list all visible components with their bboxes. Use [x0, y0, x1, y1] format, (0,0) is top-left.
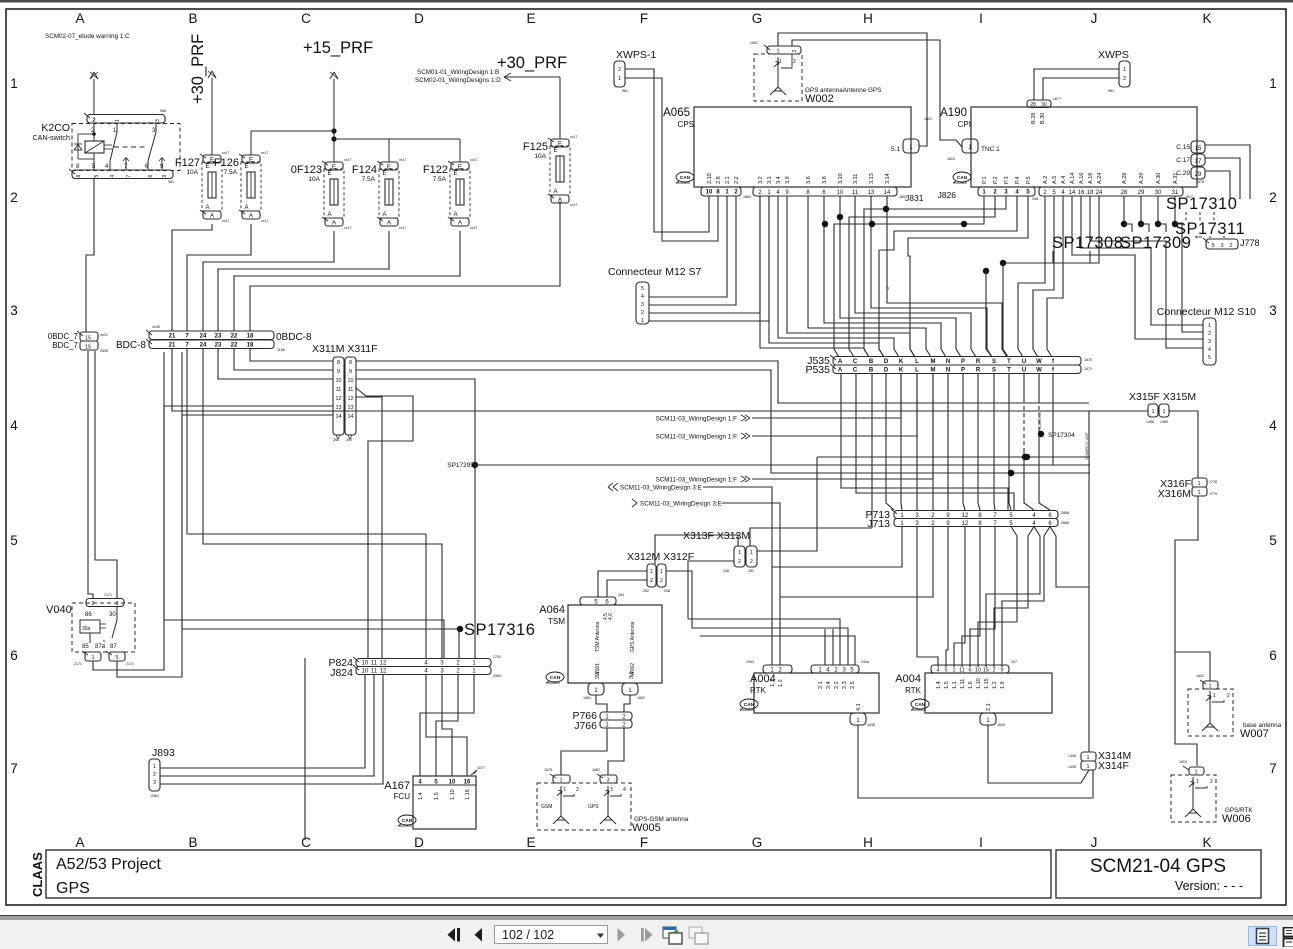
svg-text:W006: W006: [1222, 813, 1251, 825]
svg-text:RTK: RTK: [905, 686, 922, 695]
svg-text:BDC_7: BDC_7: [52, 341, 78, 350]
wire A190 pin24 to bus: [1003, 196, 1099, 263]
svg-text:SCM11-03_WiringDesign 3:E: SCM11-03_WiringDesign 3:E: [640, 501, 722, 508]
ECU A004 RTK right: [925, 673, 1052, 713]
wire A004-1 tab right: [858, 725, 1093, 798]
connector X314M X314F: [1081, 752, 1096, 761]
wires A190 28-31 to SP17311: [1123, 196, 1125, 224]
svg-text:E: E: [383, 171, 387, 177]
svg-text:W: W: [1036, 368, 1042, 374]
CAN symbol A190: [953, 172, 971, 182]
ECU A190 CPI: [971, 107, 1197, 187]
svg-text:SP17299: SP17299: [447, 462, 474, 469]
svg-text:L: L: [915, 368, 919, 374]
connector bar P713: [894, 511, 1058, 519]
svg-text:24: 24: [1096, 190, 1103, 196]
svg-text:SCM11-03_WiringDesign 1:F: SCM11-03_WiringDesign 1:F: [656, 434, 738, 441]
svg-text:264: 264: [618, 593, 624, 597]
svg-text:1: 1: [1197, 490, 1200, 496]
svg-text:N: N: [946, 359, 950, 365]
svg-text:CAN-switch: CAN-switch: [32, 133, 70, 142]
svg-text:F: F: [640, 835, 648, 850]
toolbar next page button: [616, 927, 628, 943]
svg-text:3: 3: [610, 787, 613, 793]
svg-text:X316M: X316M: [1158, 488, 1191, 500]
svg-text:248: 248: [664, 589, 670, 593]
ECU A004 RTK left: [754, 673, 879, 713]
svg-text:A: A: [245, 205, 249, 211]
svg-text:8: 8: [337, 360, 340, 366]
svg-text:1: 1: [738, 550, 741, 556]
svg-text:4: 4: [110, 175, 116, 178]
svg-text:CAN: CAN: [680, 175, 691, 181]
wires XWPS to A190 28 30: [1034, 69, 1119, 100]
svg-text:T: T: [1007, 368, 1011, 374]
svg-text:14: 14: [335, 414, 341, 420]
wire SCM11-03 1:F b: [752, 435, 917, 437]
svg-text:30a: 30a: [82, 626, 91, 632]
svg-text:H: H: [863, 11, 873, 26]
svg-text:D: D: [414, 11, 424, 26]
svg-text:xx17: xx17: [344, 158, 351, 162]
svg-text:A: A: [210, 214, 214, 220]
svg-text:10: 10: [706, 190, 713, 196]
svg-text:2: 2: [153, 772, 156, 778]
svg-text:A52/53 Project: A52/53 Project: [56, 856, 162, 873]
svg-text:M: M: [931, 359, 936, 365]
svg-text:3.1: 3.1: [767, 176, 773, 184]
svg-text:2.5: 2.5: [850, 681, 856, 689]
wire SP17299 branch: [475, 464, 1090, 466]
wire J713 pin2 to A004-1 pin2: [780, 527, 933, 598]
svg-text:0F123: 0F123: [291, 164, 322, 176]
svg-text:RTK: RTK: [750, 686, 767, 695]
svg-text:2: 2: [641, 310, 644, 316]
svg-text:3.9: 3.9: [785, 176, 791, 184]
svg-text:3.1: 3.1: [629, 671, 635, 679]
svg-text:1678: 1678: [544, 768, 552, 772]
svg-text:2: 2: [1210, 779, 1213, 785]
svg-text:2.2: 2.2: [834, 681, 840, 689]
wires X313: [655, 535, 738, 564]
svg-text:2981: 2981: [151, 794, 159, 798]
wire X311F pin12 to P824: [356, 397, 382, 659]
svg-text:2: 2: [650, 578, 653, 584]
svg-text:9: 9: [337, 369, 340, 375]
wire branch to W007: [1175, 652, 1210, 681]
svg-text:6: 6: [1269, 648, 1277, 663]
svg-text:xx17: xx17: [470, 226, 477, 230]
svg-text:29: 29: [1195, 172, 1202, 178]
svg-text:A: A: [75, 11, 84, 26]
wires C tabs to SP17310: [1205, 145, 1250, 199]
svg-text:1.15: 1.15: [984, 678, 990, 689]
svg-text:F127: F127: [175, 157, 200, 169]
junction +15 rail right: [331, 136, 336, 141]
svg-text:A: A: [838, 359, 843, 365]
svg-text:12: 12: [380, 669, 387, 675]
svg-text:23: 23: [215, 334, 222, 340]
wires A C letters to bar: [841, 373, 1008, 510]
svg-text:7: 7: [10, 761, 18, 776]
svg-text:10: 10: [975, 668, 981, 674]
svg-text:9: 9: [1000, 668, 1003, 674]
K2CO dashed box: [72, 124, 180, 171]
svg-text:10: 10: [362, 669, 369, 675]
svg-text:C: C: [301, 11, 311, 26]
svg-text:xx17: xx17: [470, 158, 477, 162]
wires J893 to P824: [160, 675, 365, 769]
K2CO junction dot: [92, 132, 96, 136]
svg-text:2: 2: [1208, 331, 1211, 337]
svg-text:11: 11: [371, 661, 378, 667]
svg-text:3: 3: [1269, 303, 1277, 318]
svg-text:FCU: FCU: [394, 792, 411, 801]
svg-text:A064: A064: [539, 604, 565, 616]
wire SCM11-03 3:E a: [703, 487, 772, 665]
V040 bottom caps: [85, 652, 101, 661]
wire F125 to BDC pin18: [250, 201, 560, 331]
wire SCM11-03 1:F a: [752, 417, 901, 419]
svg-text:2.1: 2.1: [725, 176, 731, 184]
K2CO stub pins 7 9: [125, 158, 127, 170]
fuse F126 7.5A: [242, 155, 260, 163]
svg-text:1: 1: [1196, 779, 1199, 785]
connector J831 left: [701, 187, 741, 196]
antenna W006: [1189, 767, 1204, 775]
wire W letter chain: [1038, 373, 1040, 399]
svg-text:1682: 1682: [637, 696, 645, 700]
svg-text:14: 14: [884, 190, 891, 196]
svg-text:1: 1: [1269, 76, 1277, 91]
svg-text:L: L: [915, 359, 919, 365]
svg-text:B: B: [869, 359, 874, 365]
svg-text:2688: 2688: [1061, 511, 1069, 515]
svg-text:xx17: xx17: [399, 226, 406, 230]
svg-text:1860: 1860: [743, 195, 751, 199]
svg-text:1: 1: [750, 550, 753, 556]
svg-text:961: 961: [622, 89, 628, 93]
svg-text:3.2: 3.2: [758, 176, 764, 184]
svg-text:10: 10: [335, 378, 341, 384]
svg-text:CAN: CAN: [915, 702, 926, 708]
svg-text:GPS: GPS: [56, 880, 90, 897]
wire X316M down to W006: [1175, 496, 1198, 766]
svg-text:D: D: [414, 835, 424, 850]
svg-text:348: 348: [1196, 235, 1202, 239]
svg-text:S: S: [992, 359, 996, 365]
svg-text:W005: W005: [632, 822, 661, 834]
wire SCM11-03 1:F c: [752, 478, 933, 480]
svg-text:K: K: [899, 368, 904, 374]
svg-text:F125: F125: [523, 141, 548, 153]
svg-text:30: 30: [109, 612, 116, 618]
wire +30_PRF to F125: [504, 76, 560, 78]
junction dots row4: [1024, 454, 1030, 460]
connector bar J766: [600, 720, 632, 728]
svg-text:1675: 1675: [1084, 358, 1092, 362]
toolbar prev page button: [473, 927, 485, 943]
svg-text:GPS Antenna: GPS Antenna: [630, 621, 636, 652]
svg-text:D: D: [884, 368, 889, 374]
svg-text:R: R: [976, 359, 981, 365]
wire J713 pin1 to A004-1 pin1: [772, 527, 902, 568]
svg-text:1: 1: [952, 668, 955, 674]
svg-text:xx17: xx17: [570, 203, 577, 207]
svg-text:1602: 1602: [750, 41, 758, 45]
svg-text:J893: J893: [152, 747, 175, 759]
connector J826: [978, 187, 1035, 196]
svg-text:15: 15: [1195, 146, 1202, 152]
svg-text:30: 30: [1041, 102, 1047, 108]
wire F124 to BDC pin23: [218, 231, 389, 331]
svg-text:CPI: CPI: [958, 120, 971, 129]
svg-text:4,6: 4,6: [608, 613, 614, 620]
svg-text:16: 16: [1078, 190, 1085, 196]
svg-text:269: 269: [346, 438, 352, 442]
svg-text:2: 2: [1269, 190, 1277, 205]
svg-text:5: 5: [115, 655, 118, 661]
svg-text:240a: 240a: [861, 660, 869, 664]
svg-text:1603: 1603: [947, 157, 955, 161]
svg-text:2171: 2171: [126, 662, 134, 666]
svg-text:7: 7: [1269, 761, 1277, 776]
wires left verticals to P824: [164, 352, 444, 659]
svg-text:M: M: [931, 368, 936, 374]
svg-text:1963: 1963: [746, 660, 754, 664]
svg-text:1: 1: [1151, 409, 1154, 415]
wires J824 to A167 crossover: [420, 675, 474, 777]
svg-text:1: 1: [650, 569, 653, 575]
svg-text:X311M X311F: X311M X311F: [312, 343, 378, 355]
svg-text:4: 4: [10, 418, 18, 433]
connector bar J824: [356, 667, 491, 675]
svg-text:xx02: xx02: [100, 333, 108, 337]
wire K2CO coil supply: [93, 79, 95, 115]
svg-text:2: 2: [738, 559, 741, 565]
V040 contact: [116, 607, 118, 620]
svg-text:SP17309: SP17309: [1120, 234, 1191, 252]
svg-text:2: 2: [1229, 243, 1232, 249]
svg-text:E: E: [245, 164, 249, 170]
svg-text:2808: 2808: [100, 349, 108, 353]
node SP17316: [457, 626, 463, 632]
svg-text:TSM Antenna: TSM Antenna: [595, 621, 601, 652]
svg-text:E: E: [332, 165, 336, 171]
fuse F127 10A: [203, 155, 221, 163]
svg-text:10A: 10A: [534, 153, 546, 160]
wire X311F pin10 to SP17299: [356, 379, 475, 465]
wire F122 top: [459, 139, 461, 162]
svg-text:5: 5: [1269, 533, 1277, 548]
svg-text:P.4: P.4: [1015, 176, 1021, 184]
svg-text:5: 5: [1211, 243, 1214, 249]
svg-text:6: 6: [148, 175, 154, 178]
K2CO coil bracket: [78, 133, 94, 135]
K2CO contact 3: [155, 123, 157, 132]
svg-text:K: K: [899, 359, 904, 365]
svg-text:10A: 10A: [186, 169, 198, 176]
svg-text:2: 2: [576, 787, 579, 793]
svg-text:K: K: [1202, 11, 1211, 26]
svg-text:2: 2: [10, 190, 18, 205]
wire 0F123 to BDC pin24: [203, 231, 334, 331]
svg-text:GSM: GSM: [541, 804, 552, 810]
svg-text:961: 961: [1108, 89, 1114, 93]
svg-text:1: 1: [115, 119, 121, 122]
svg-text:10A: 10A: [308, 176, 320, 183]
svg-text:5: 5: [1208, 355, 1211, 361]
svg-text:J826: J826: [938, 190, 957, 200]
svg-text:3.13: 3.13: [869, 173, 875, 184]
svg-text:xx17: xx17: [570, 135, 577, 139]
svg-text:G: G: [752, 835, 763, 850]
svg-text:A: A: [206, 205, 210, 211]
toolbar page number box: [494, 925, 608, 944]
svg-text:28: 28: [1030, 102, 1036, 108]
svg-text:B.28: B.28: [1031, 113, 1037, 124]
svg-text:A.28: A.28: [1122, 173, 1128, 184]
svg-text:B.30: B.30: [1040, 113, 1046, 124]
svg-text:A065: A065: [663, 107, 690, 119]
K2CO mechanical link: [104, 144, 112, 146]
antenna W002: [754, 54, 802, 101]
wire long vertical left E: [304, 658, 306, 840]
svg-text:348: 348: [1032, 197, 1038, 201]
svg-text:3.4: 3.4: [776, 176, 782, 184]
svg-text:1.1: 1.1: [952, 681, 958, 689]
svg-text:T: T: [1007, 359, 1011, 365]
svg-text:10: 10: [347, 378, 353, 384]
svg-text:C.17: C.17: [1176, 157, 1190, 164]
wire F127 to BDC pin21: [172, 224, 212, 331]
svg-text:21: 21: [169, 334, 176, 340]
wire F126 to BDC pin7: [187, 224, 251, 331]
wire +30_PRF to F127: [211, 78, 213, 155]
svg-text:4: 4: [1208, 347, 1211, 353]
svg-text:2.3: 2.3: [842, 681, 848, 689]
svg-text:1489: 1489: [1160, 420, 1168, 424]
svg-text:5F: 5F: [886, 285, 890, 290]
svg-text:1: 1: [1213, 693, 1216, 699]
svg-text:E: E: [454, 171, 458, 177]
svg-text:18: 18: [247, 343, 254, 349]
svg-text:TNC.1: TNC.1: [981, 146, 1000, 153]
wire bus row4 mid: [1008, 470, 1014, 476]
svg-text:2686: 2686: [1061, 521, 1069, 525]
svg-text:F122: F122: [423, 164, 448, 176]
svg-text:A.30: A.30: [1156, 173, 1162, 184]
svg-text:1.1: 1.1: [770, 679, 776, 687]
svg-text:xx17: xx17: [399, 158, 406, 162]
svg-text:A.24: A.24: [1097, 173, 1103, 184]
svg-text:11: 11: [852, 190, 859, 196]
svg-text:11: 11: [348, 387, 354, 393]
svg-text:S: S: [992, 368, 996, 374]
svg-text:1: 1: [153, 764, 156, 770]
node SP17304: [1038, 431, 1044, 437]
svg-text:A.16: A.16: [1079, 173, 1085, 184]
svg-text:B: B: [869, 368, 874, 374]
svg-text:1488: 1488: [1146, 420, 1154, 424]
svg-text:1: 1: [1208, 323, 1211, 329]
svg-text:C: C: [853, 368, 858, 374]
svg-text:1.9: 1.9: [1000, 681, 1006, 689]
fuse F122 7.5A: [451, 162, 469, 170]
wires X312 to A064: [598, 571, 647, 597]
svg-text:1: 1: [660, 569, 663, 575]
svg-text:7.5A: 7.5A: [362, 176, 376, 183]
svg-text:+30_PRF: +30_PRF: [497, 54, 567, 72]
wires XWPS-1 to A065: [625, 69, 709, 232]
svg-text:4: 4: [641, 294, 644, 300]
CAN symbol A065: [676, 172, 694, 182]
svg-text:3: 3: [153, 780, 156, 786]
svg-text:3.14: 3.14: [885, 173, 891, 184]
svg-text:11: 11: [336, 387, 342, 393]
svg-text:X312M X312F: X312M X312F: [627, 551, 694, 563]
fuse F124 7.5A: [380, 162, 398, 170]
title box left: [46, 850, 1051, 898]
antenna W005: [553, 775, 570, 783]
svg-text:A.5: A.5: [1052, 176, 1058, 184]
svg-text:A: A: [328, 212, 332, 218]
svg-text:R: R: [976, 368, 981, 374]
svg-text:5: 5: [10, 533, 18, 548]
svg-text:X315F X315M: X315F X315M: [1129, 391, 1196, 403]
svg-text:23: 23: [215, 343, 222, 349]
toolbar last page button: [640, 927, 656, 943]
svg-text:A.4: A.4: [1061, 176, 1067, 184]
wires P535 to P713: [901, 373, 902, 510]
svg-text:E: E: [206, 164, 210, 170]
svg-text:P: P: [961, 368, 965, 374]
wires X311M bottom staircase left: [164, 406, 333, 620]
wire D letter to P713 left: [886, 373, 894, 510]
svg-text:1.2: 1.2: [992, 681, 998, 689]
svg-text:CAN: CAN: [550, 675, 561, 681]
svg-text:1166: 1166: [277, 348, 285, 352]
svg-text:3.8: 3.8: [822, 176, 828, 184]
svg-text:85: 85: [82, 644, 89, 650]
svg-text:3: 3: [115, 601, 118, 607]
svg-text:24: 24: [200, 334, 207, 340]
svg-text:1779: 1779: [1209, 492, 1217, 496]
connector J831 long: [753, 187, 897, 196]
svg-text:C: C: [853, 359, 858, 365]
svg-text:2791: 2791: [493, 655, 501, 659]
wires A064 to P766: [596, 695, 607, 712]
svg-text:CAN: CAN: [402, 818, 413, 824]
wires V040 bottom: [93, 620, 164, 670]
svg-text:A: A: [387, 221, 391, 227]
svg-text:1: 1: [1086, 764, 1089, 770]
svg-text:SCM01-01_WiringDesign 1:B: SCM01-01_WiringDesign 1:B: [417, 69, 499, 76]
svg-text:E: E: [387, 165, 391, 171]
svg-text:5.1: 5.1: [891, 146, 900, 153]
svg-text:17: 17: [1195, 159, 1202, 165]
svg-text:G: G: [752, 11, 763, 26]
svg-text:1.4: 1.4: [936, 681, 942, 689]
svg-text:2: 2: [750, 559, 753, 565]
svg-text:2: 2: [92, 118, 95, 124]
svg-text:W002: W002: [805, 93, 834, 105]
svg-text:86: 86: [85, 612, 92, 618]
wires J766 to W005: [561, 728, 607, 775]
K2CO coil: [85, 141, 104, 153]
svg-text:14: 14: [1069, 190, 1076, 196]
svg-text:12: 12: [347, 396, 353, 402]
